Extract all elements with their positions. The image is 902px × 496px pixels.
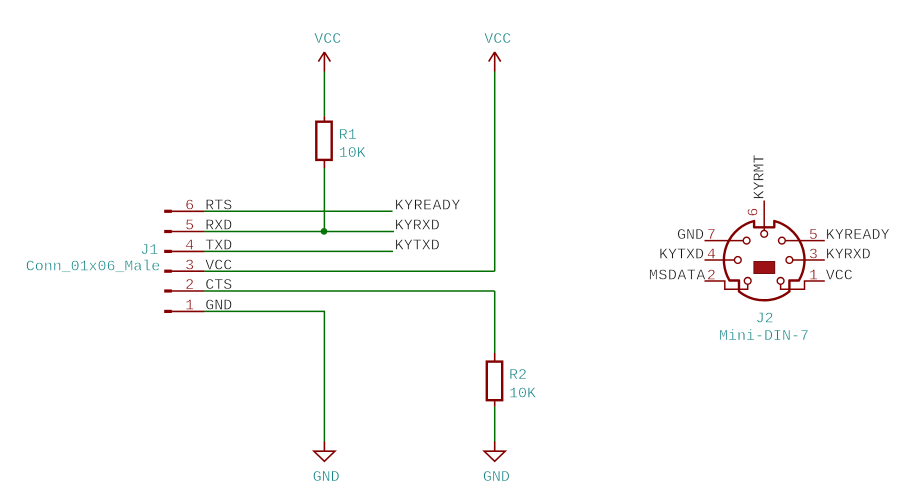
svg-text:2: 2 (707, 267, 716, 284)
J2 pin hole 6 (761, 230, 768, 237)
svg-text:MSDATA: MSDATA (649, 267, 706, 284)
resistor R2 (487, 353, 502, 407)
connector J1 pin 4 (164, 238, 204, 255)
svg-text:VCC: VCC (484, 31, 511, 48)
power GND #PWR04 (right) (483, 442, 510, 487)
svg-text:6: 6 (746, 208, 763, 217)
connector J1 pin 6 (164, 197, 204, 214)
value label R1 / 10K (339, 127, 366, 162)
svg-text:1: 1 (185, 298, 194, 315)
svg-text:2: 2 (185, 277, 194, 294)
wire row6 (204, 210, 392, 212)
svg-text:4: 4 (707, 246, 716, 263)
svg-text:VCC: VCC (314, 31, 341, 48)
svg-text:Mini-DIN-7: Mini-DIN-7 (719, 328, 809, 345)
resistor R1 (316, 116, 331, 168)
J2 pin hole 7 (743, 237, 750, 244)
wire row2 down to R2 (494, 291, 496, 353)
J2 pin hole 5 (779, 237, 786, 244)
J2 pin hole 4 (734, 257, 741, 264)
wire row4 (204, 250, 393, 252)
connector J1 pin 1 (164, 298, 204, 315)
power VCC #PWR02 (right) (484, 31, 511, 72)
svg-text:KYREADY: KYREADY (395, 197, 461, 214)
svg-text:GND: GND (483, 469, 510, 486)
J2 pin 4 lead (705, 259, 735, 261)
svg-text:R1: R1 (339, 127, 357, 144)
svg-text:4: 4 (185, 238, 194, 255)
J2 pin 6 lead (763, 201, 765, 231)
connector J2 shell (Mini-DIN-7) (724, 221, 805, 300)
J2 pin 7 lead (705, 240, 744, 242)
J2 pin 5 lead (785, 240, 825, 242)
wire row5 (204, 231, 394, 233)
connector J1 pin 2 (164, 277, 204, 294)
wire row3 (204, 270, 494, 272)
svg-text:10K: 10K (509, 385, 536, 402)
J2 pin 3 lead (793, 259, 825, 261)
wire row2 (204, 290, 494, 292)
junction dot node KYRXD (321, 228, 328, 235)
svg-text:KYRXD: KYRXD (826, 246, 871, 263)
svg-text:VCC: VCC (826, 267, 853, 284)
J2 pin 1 lead (781, 281, 825, 289)
J2 pin 2 lead (705, 281, 748, 289)
value label R2 / 10K (509, 367, 536, 402)
connector J1 pin 5 (164, 218, 204, 235)
wire R2 bottom to GND (494, 407, 496, 442)
wire VCC to R1 top (323, 72, 325, 117)
svg-text:KYRXD: KYRXD (395, 218, 440, 235)
svg-text:R2: R2 (509, 367, 527, 384)
svg-text:3: 3 (185, 257, 194, 274)
svg-text:KYRMT: KYRMT (751, 154, 768, 199)
svg-text:10K: 10K (339, 145, 366, 162)
power GND #PWR03 (left) (313, 442, 340, 487)
J2 pin hole 3 (786, 257, 793, 264)
connector J2 center key rectangle (754, 262, 775, 274)
svg-text:KYTXD: KYTXD (395, 238, 440, 255)
svg-text:GND: GND (313, 469, 340, 486)
svg-text:J2: J2 (756, 310, 774, 327)
svg-text:KYREADY: KYREADY (826, 227, 890, 244)
svg-text:J1: J1 (140, 242, 158, 259)
connector J1 pin 3 (164, 257, 204, 274)
wire right VCC vertical down to row3 (494, 72, 496, 272)
svg-text:5: 5 (185, 218, 194, 235)
svg-text:7: 7 (707, 227, 716, 244)
power VCC #PWR01 (left) (314, 31, 341, 72)
svg-text:3: 3 (809, 246, 818, 263)
svg-text:KYTXD: KYTXD (659, 246, 704, 263)
svg-text:5: 5 (809, 227, 818, 244)
wire row1 (204, 311, 324, 441)
svg-text:Conn_01x06_Male: Conn_01x06_Male (26, 258, 160, 275)
J2 pin hole 2 (744, 278, 751, 285)
svg-text:6: 6 (185, 197, 194, 214)
svg-text:GND: GND (677, 227, 704, 244)
J2 pin hole 1 (777, 278, 784, 285)
svg-text:1: 1 (809, 267, 818, 284)
wire R1 bottom to junction (323, 168, 325, 231)
